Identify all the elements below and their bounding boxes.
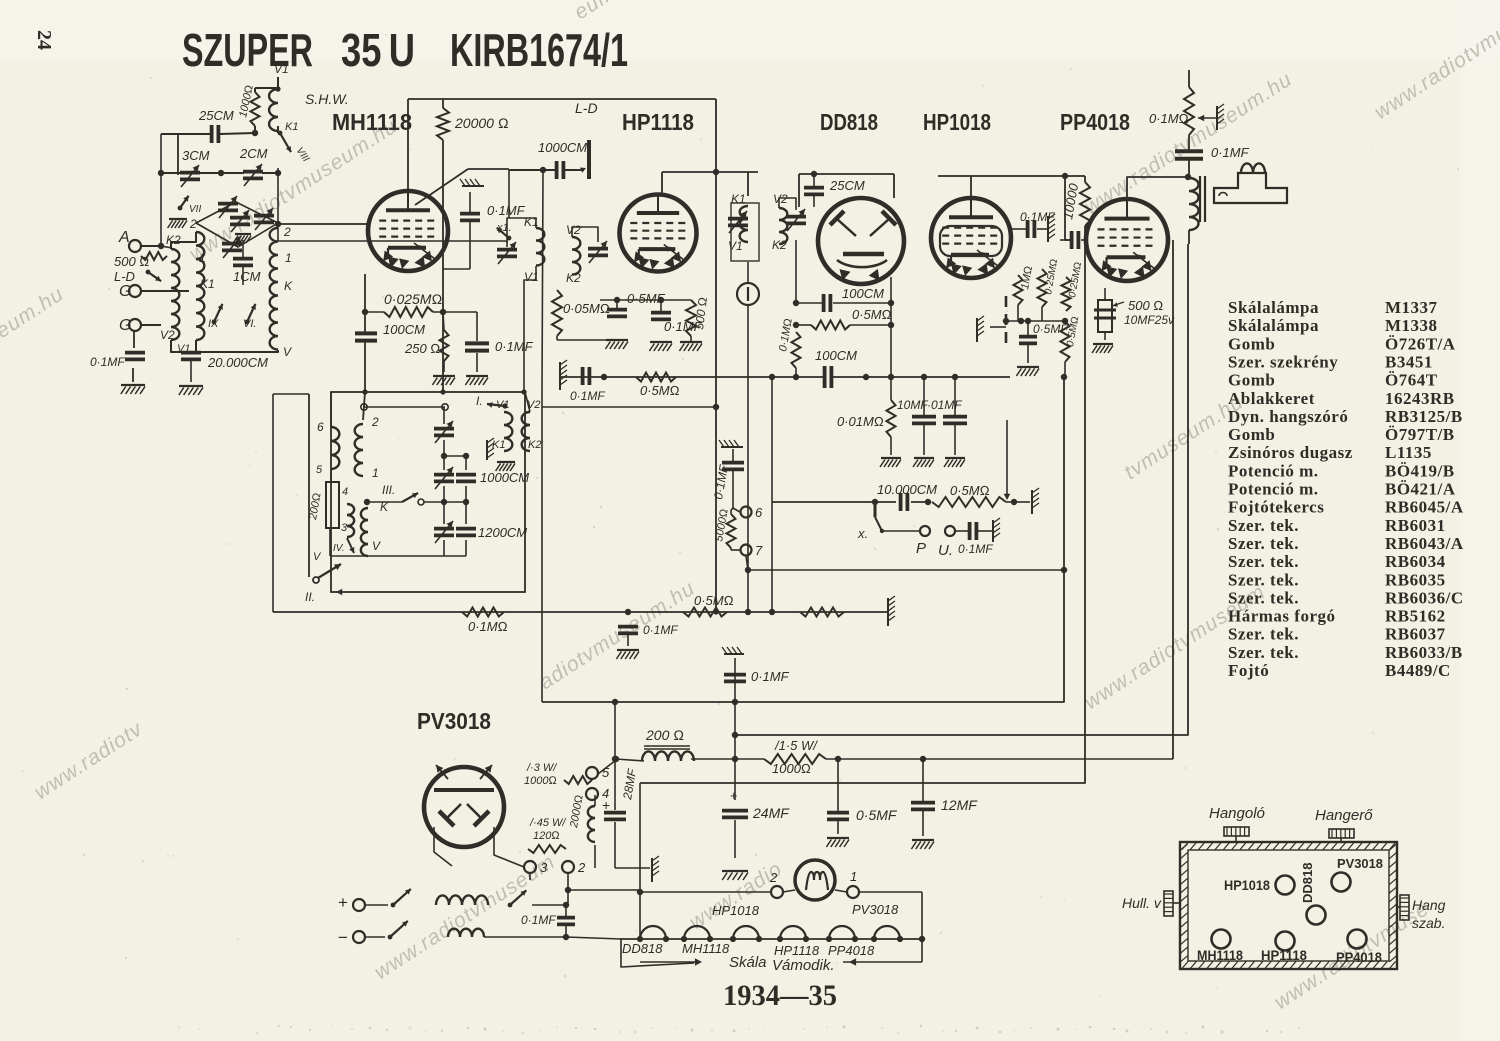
trimmer bank <box>434 427 454 431</box>
capacitor 1000CM <box>456 473 476 477</box>
svg-text:500 Ω: 500 Ω <box>1128 298 1163 313</box>
ground <box>121 384 145 386</box>
svg-text:V2: V2 <box>566 223 581 237</box>
svg-text:0·5MΩ: 0·5MΩ <box>950 483 990 498</box>
hatch gnd angled <box>976 318 978 342</box>
svg-text:1200CM: 1200CM <box>478 525 527 540</box>
capacitor 0.1MF out <box>1175 149 1203 153</box>
svg-text:Vámodik.: Vámodik. <box>772 957 835 974</box>
resistor 20000 ohm <box>437 108 449 140</box>
wire coil2000 gnd <box>594 845 596 868</box>
wire <box>242 240 244 258</box>
speaker <box>1214 173 1287 203</box>
dashed chassis line <box>1005 296 1008 348</box>
svg-text:3: 3 <box>341 522 348 534</box>
wire x772 down <box>771 502 773 612</box>
wire top DD818 <box>799 173 894 175</box>
terminal 7 <box>741 545 752 556</box>
svg-text:Hull. v: Hull. v <box>1122 895 1162 911</box>
resistor 0.5M bus2 <box>683 608 727 617</box>
capacitor 100CM <box>355 331 377 335</box>
wire AVC <box>278 240 507 242</box>
coil mains bottom <box>448 929 484 937</box>
svg-text:II.: II. <box>305 590 315 604</box>
svg-text:0·1MF: 0·1MF <box>521 913 556 927</box>
svg-text:PP4018: PP4018 <box>1060 109 1130 135</box>
resistor 250 ohm <box>440 330 449 361</box>
svg-text:Skálalámpa: Skálalámpa <box>1228 316 1319 335</box>
socket DD818 <box>1307 906 1326 925</box>
svg-text:5: 5 <box>316 464 323 476</box>
svg-text:HP1018: HP1018 <box>923 109 991 135</box>
output transformer coil <box>1189 178 1199 230</box>
socket PV3018 <box>1332 873 1351 892</box>
capacitor 0.1MF <box>943 415 967 419</box>
heater hump <box>874 926 900 939</box>
scan smudges <box>178 1026 181 1029</box>
svg-text:2: 2 <box>371 415 379 429</box>
wire x615 chain <box>612 699 618 705</box>
svg-text:Ablakkeret: Ablakkeret <box>1228 389 1315 408</box>
resistor 0.5M vert <box>1061 321 1070 362</box>
tube HP1118 <box>620 195 697 272</box>
svg-text:V: V <box>283 345 292 359</box>
capacitor 1200CM <box>456 527 476 531</box>
svg-text:Szer. tek.: Szer. tek. <box>1228 625 1299 644</box>
svg-text:Szer. tek.: Szer. tek. <box>1228 643 1299 662</box>
svg-text:Szer. tek.: Szer. tek. <box>1228 552 1299 571</box>
switch plus <box>365 904 388 906</box>
svg-text:HP1018: HP1018 <box>1224 877 1270 893</box>
heater hump <box>733 926 759 939</box>
wire anode y172 <box>662 171 758 173</box>
svg-text:SZUPER: SZUPER <box>182 24 313 76</box>
electrode bar L-D <box>587 140 591 179</box>
svg-text:Ö797T/B: Ö797T/B <box>1385 425 1455 444</box>
bottom row <box>330 555 466 557</box>
capacitor 0.5MF <box>1019 335 1037 339</box>
svg-text:RB3125/B: RB3125/B <box>1385 407 1463 426</box>
wire left vertical <box>177 133 179 175</box>
terminal 3 <box>524 861 536 873</box>
svg-text:0·01MΩ: 0·01MΩ <box>837 414 884 429</box>
svg-text:0·5MΩ: 0·5MΩ <box>640 383 680 398</box>
svg-text:K1: K1 <box>492 439 505 451</box>
trimmer <box>218 202 238 206</box>
wire y407 link <box>542 406 716 408</box>
svg-text:1: 1 <box>199 251 206 265</box>
svg-text:7: 7 <box>755 543 763 558</box>
ground <box>169 218 187 220</box>
svg-text:PV3018: PV3018 <box>1337 856 1383 871</box>
IF2 can box <box>731 203 759 261</box>
resistor 0.5M <box>811 321 850 330</box>
svg-text:Skálalámpa: Skálalámpa <box>1228 298 1319 317</box>
resistor 0.01M <box>887 400 896 437</box>
hatch <box>721 446 743 448</box>
socket PP4018 <box>1348 930 1367 949</box>
svg-text:0·5MΩ: 0·5MΩ <box>852 307 892 322</box>
ground <box>912 839 934 841</box>
wire V2 can drop <box>795 240 797 303</box>
resistor 1M <box>1014 275 1023 305</box>
svg-text:MH1118: MH1118 <box>682 941 730 956</box>
wire y502 <box>772 501 896 503</box>
svg-text:Gomb: Gomb <box>1228 425 1275 444</box>
hatch <box>1047 216 1049 242</box>
terminal 5 <box>586 767 598 779</box>
svg-text:3: 3 <box>540 860 548 875</box>
svg-text:HP1118: HP1118 <box>1261 947 1307 963</box>
resistor 5000 ohm <box>727 514 736 548</box>
svg-text:M1338: M1338 <box>1385 316 1438 335</box>
wire h 175 <box>161 172 182 174</box>
svg-text:RB6033/B: RB6033/B <box>1385 643 1463 662</box>
svg-text:A: A <box>118 229 130 246</box>
tube PP4018 <box>1086 199 1168 281</box>
svg-text:1000CM: 1000CM <box>480 470 529 485</box>
tube HP1018 <box>931 198 1011 278</box>
wire IF1 drop <box>508 170 510 218</box>
heater hump <box>640 926 666 939</box>
svg-text:6: 6 <box>755 505 763 520</box>
wire drop x1188 <box>735 244 1188 735</box>
svg-text:IV.: IV. <box>333 543 344 554</box>
svg-text:III.: III. <box>382 483 395 497</box>
capacitor 0.1MF <box>651 311 671 315</box>
svg-text:I.: I. <box>476 394 483 408</box>
dots <box>601 374 607 380</box>
capacitor 0.1MF anode <box>460 212 480 216</box>
svg-text:1: 1 <box>372 466 379 480</box>
switch IX <box>214 304 222 322</box>
svg-text:Szer. tek.: Szer. tek. <box>1228 534 1299 553</box>
svg-text:HP1018: HP1018 <box>712 903 760 918</box>
terminal 4 <box>586 788 598 800</box>
row y321 <box>1003 320 1067 322</box>
hatch stem <box>990 326 1006 328</box>
wire <box>442 99 444 108</box>
wire cathode left <box>364 274 366 333</box>
rail B+ top <box>408 98 716 100</box>
wire <box>133 331 135 348</box>
svg-text:/·3 W/: /·3 W/ <box>526 762 557 774</box>
svg-text:2: 2 <box>189 217 197 231</box>
wire tops <box>171 232 196 249</box>
switch VI <box>247 304 255 322</box>
hatch <box>887 598 889 626</box>
svg-text:PP4018: PP4018 <box>1336 949 1382 965</box>
svg-text:szab.: szab. <box>1412 915 1445 931</box>
svg-text:0·1MF: 0·1MF <box>570 389 605 403</box>
wire <box>254 126 256 133</box>
svg-text:0·1MF: 0·1MF <box>487 203 526 218</box>
wire x735 vert <box>734 658 736 800</box>
svg-text:0·1MF: 0·1MF <box>90 355 125 369</box>
svg-text:+: + <box>338 893 348 912</box>
svg-text:K: K <box>284 279 293 293</box>
svg-text:0·1MF: 0·1MF <box>958 542 993 556</box>
svg-text:/·45 W/: /·45 W/ <box>529 817 566 829</box>
svg-text:0·1MF: 0·1MF <box>751 669 790 684</box>
socket HP1018 <box>1276 876 1295 895</box>
ground <box>497 461 515 463</box>
wires to bus <box>566 937 621 939</box>
capacitor 100CM b <box>823 366 827 388</box>
svg-text:1000Ω: 1000Ω <box>772 761 811 776</box>
resistor 0.5M bus <box>636 373 676 382</box>
heater hump <box>829 926 855 939</box>
svg-text:U.: U. <box>938 542 953 559</box>
tube MH1118 <box>368 191 448 271</box>
capacitor 0.1MF right col <box>722 461 744 465</box>
filament bus <box>620 938 922 940</box>
svg-text:6: 6 <box>317 420 324 434</box>
capacitor 12MF <box>911 801 935 805</box>
svg-text:Potenció m.: Potenció m. <box>1228 480 1318 499</box>
svg-text:RB6045/A: RB6045/A <box>1385 498 1464 517</box>
trimmer <box>254 214 274 218</box>
wire <box>190 360 192 382</box>
terminal U <box>945 526 955 536</box>
grounds <box>606 339 628 341</box>
bus y377 <box>560 376 823 378</box>
wire bottoms <box>171 340 196 352</box>
heater hump <box>780 926 806 939</box>
svg-text:·01MF: ·01MF <box>927 398 962 412</box>
diag from term5 <box>598 760 616 774</box>
svg-text:0·025MΩ: 0·025MΩ <box>384 291 442 307</box>
svg-text:Fojtótekercs: Fojtótekercs <box>1228 498 1324 517</box>
svg-text:V2: V2 <box>160 328 175 342</box>
svg-text:100CM: 100CM <box>815 348 857 363</box>
capacitor 25CM <box>804 186 824 190</box>
arrow right <box>843 961 880 963</box>
svg-text:MH1118: MH1118 <box>1197 947 1243 963</box>
wire screen bypass <box>469 221 471 269</box>
svg-text:L-D: L-D <box>114 269 135 284</box>
svg-text:24: 24 <box>33 30 55 50</box>
wire y570 <box>748 569 1064 571</box>
svg-text:HP1118: HP1118 <box>774 943 820 958</box>
svg-text:RB6031: RB6031 <box>1385 516 1446 535</box>
svg-text:K1: K1 <box>285 121 298 133</box>
wires <box>890 437 892 455</box>
resistor 0.25M a <box>1038 269 1047 307</box>
svg-text:RB6034: RB6034 <box>1385 552 1446 571</box>
capacitor 0.1MF <box>618 625 638 629</box>
svg-text:−: − <box>338 928 348 947</box>
resistor 500 ohm <box>686 300 696 336</box>
wire MH anode diagonal <box>415 169 468 205</box>
heater hump <box>684 926 710 939</box>
svg-text:B4489/C: B4489/C <box>1385 661 1451 680</box>
wire outer left <box>308 394 310 577</box>
ground <box>179 385 203 387</box>
svg-text:1000CM: 1000CM <box>538 140 587 155</box>
resistor 0.5M bus3 <box>800 608 844 617</box>
socket HP1118 <box>1276 932 1295 951</box>
svg-text:10MF25v: 10MF25v <box>1124 313 1175 327</box>
wire right <box>826 758 1173 760</box>
svg-text:12MF: 12MF <box>941 797 978 813</box>
bus y612 <box>273 611 888 613</box>
svg-text:0·05MΩ: 0·05MΩ <box>563 301 610 316</box>
terminal 1 lamp <box>847 886 859 898</box>
svg-text:PV3018: PV3018 <box>417 708 491 734</box>
switch VII <box>180 196 189 208</box>
svg-text:L-D: L-D <box>575 100 598 116</box>
svg-text:RB6043/A: RB6043/A <box>1385 534 1464 553</box>
capacitor 10MF <box>912 415 936 419</box>
grounds <box>881 457 901 459</box>
wire y407 run <box>364 406 445 408</box>
svg-text:Hang: Hang <box>1412 897 1446 913</box>
svg-text:RB6037: RB6037 <box>1385 625 1446 644</box>
wire <box>691 758 764 760</box>
svg-text:16243RB: 16243RB <box>1385 389 1455 408</box>
svg-text:K2: K2 <box>566 271 581 285</box>
svg-text:Dyn. hangszóró: Dyn. hangszóró <box>1228 407 1348 426</box>
wire into box <box>364 341 366 392</box>
dial lamp <box>795 860 835 900</box>
svg-text:1934—35: 1934—35 <box>723 979 837 1012</box>
terminal 6 <box>741 507 752 518</box>
svg-text:x.: x. <box>857 526 868 541</box>
switch plus b <box>510 890 526 905</box>
switch II <box>313 577 319 583</box>
tube DD818 <box>818 198 904 284</box>
dot <box>625 609 631 615</box>
svg-text:1: 1 <box>850 869 857 884</box>
wire antenna to coil <box>141 245 161 247</box>
wire left drop <box>272 394 274 612</box>
ground <box>827 837 849 839</box>
svg-text:0·1MF: 0·1MF <box>643 623 678 637</box>
wire <box>132 368 134 382</box>
ground <box>433 375 455 377</box>
resistor 0.05M <box>552 290 562 336</box>
capacitor 0.1MF right <box>1026 220 1030 238</box>
svg-text:V1: V1 <box>728 239 743 253</box>
svg-text:K1: K1 <box>200 277 215 291</box>
capacitor grid PP <box>1070 231 1074 249</box>
svg-text:2: 2 <box>769 870 778 885</box>
trimmer IF1b <box>588 247 608 251</box>
capacitor 0.5MF <box>827 811 849 815</box>
svg-text:0·5MF: 0·5MF <box>856 807 898 823</box>
resistor 0.25M b <box>1062 277 1071 311</box>
svg-text:+: + <box>730 788 738 803</box>
capacitor 0.1MF bus <box>581 367 585 385</box>
svg-text:K2: K2 <box>772 238 787 252</box>
coil mains top <box>436 895 488 905</box>
hatch gnd <box>992 520 994 542</box>
svg-text:HP1118: HP1118 <box>622 109 694 135</box>
capacitor 0.1MF pu <box>968 522 972 540</box>
socket MH1118 <box>1212 930 1231 949</box>
svg-text:2: 2 <box>283 225 291 239</box>
svg-text:Szer. tek.: Szer. tek. <box>1228 516 1299 535</box>
hatch <box>559 362 561 390</box>
svg-text:Fojtó: Fojtó <box>1228 661 1269 680</box>
svg-text:V: V <box>372 539 381 553</box>
potentiometer 0.5M <box>932 497 1006 507</box>
svg-text:RB6036/C: RB6036/C <box>1385 588 1464 607</box>
svg-text:V1: V1 <box>496 399 509 411</box>
svg-text:2: 2 <box>577 860 586 875</box>
wire PP anode <box>1127 177 1188 199</box>
capacitor 10000cm <box>899 493 903 511</box>
svg-text:1: 1 <box>285 251 292 265</box>
svg-text:25CM: 25CM <box>198 108 234 123</box>
svg-text:250 Ω: 250 Ω <box>404 341 440 356</box>
svg-text:BÖ419/B: BÖ419/B <box>1385 461 1455 480</box>
svg-text:Gomb: Gomb <box>1228 371 1275 390</box>
hatch <box>1216 106 1218 130</box>
svg-text:Szer. szekrény: Szer. szekrény <box>1228 352 1338 371</box>
capacitor 20000cm <box>181 351 201 355</box>
hatch <box>724 653 744 655</box>
svg-text:IX: IX <box>208 318 219 330</box>
svg-text:V2: V2 <box>773 192 788 206</box>
svg-text:PV3018: PV3018 <box>852 902 899 917</box>
diamond of trimmers <box>196 202 278 223</box>
core <box>1199 176 1201 222</box>
svg-text:P: P <box>916 540 926 557</box>
chassis box <box>1180 842 1397 969</box>
top wire dots <box>362 389 367 394</box>
coil ant K2/V2 <box>171 249 179 340</box>
svg-text:VI.: VI. <box>243 318 256 330</box>
svg-text:Szer. tek.: Szer. tek. <box>1228 570 1299 589</box>
svg-text:0·1MΩ: 0·1MΩ <box>1149 111 1189 126</box>
svg-text:K1: K1 <box>731 192 746 206</box>
svg-text:0·1MF: 0·1MF <box>495 339 534 354</box>
terminal 2 <box>562 861 574 873</box>
svg-text:25CM: 25CM <box>829 178 865 193</box>
pot 0.1M top right <box>1188 70 1190 87</box>
svg-text:KIRB1674/1: KIRB1674/1 <box>450 24 628 76</box>
resistor 200 ohm box <box>326 482 339 528</box>
svg-text:+: + <box>602 797 610 813</box>
resistor 0.1M bus <box>462 608 504 617</box>
ground <box>617 649 639 651</box>
svg-text:Gomb: Gomb <box>1228 334 1275 353</box>
wire heater legs <box>434 827 452 866</box>
ground <box>235 233 251 235</box>
svg-text:/1·5 W/: /1·5 W/ <box>774 738 818 753</box>
dot <box>769 609 775 615</box>
coil top <box>269 89 278 131</box>
svg-text:Szer. tek.: Szer. tek. <box>1228 588 1299 607</box>
svg-text:DD818: DD818 <box>1300 863 1315 903</box>
svg-text:Hangoló: Hangoló <box>1209 805 1265 822</box>
wire drop x1173 <box>1172 240 1174 759</box>
svg-text:V1: V1 <box>274 62 289 76</box>
wires <box>1027 344 1029 363</box>
svg-text:100CM: 100CM <box>383 322 425 337</box>
svg-text:Zsinóros dugasz: Zsinóros dugasz <box>1228 443 1353 462</box>
trimmer <box>222 242 242 246</box>
trimmer <box>230 216 250 220</box>
svg-text:BÖ421/A: BÖ421/A <box>1385 480 1456 499</box>
electrolytic 500ohm 10MF <box>1098 300 1112 332</box>
trimmer IF1 <box>497 248 517 252</box>
wires trimmer bank <box>443 407 445 424</box>
svg-text:1CM: 1CM <box>233 269 261 284</box>
resistor 0.025M <box>384 307 433 317</box>
